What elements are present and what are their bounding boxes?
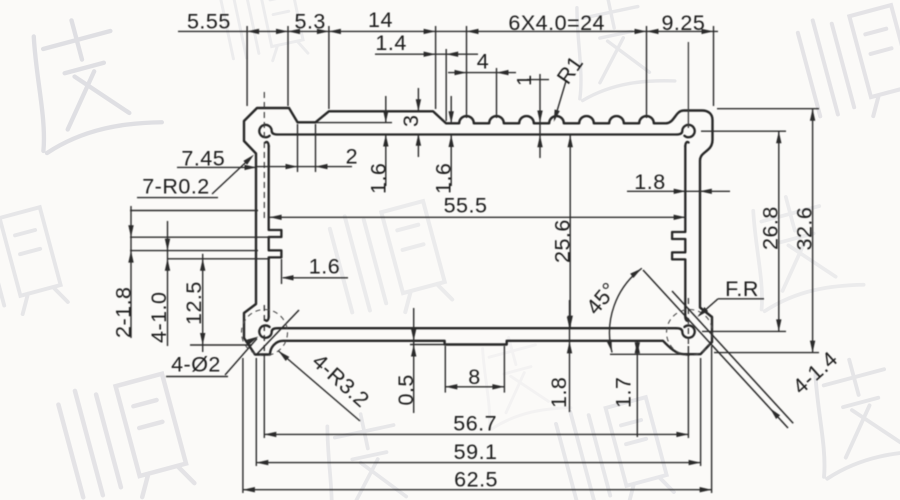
- svg-text:2: 2: [346, 145, 358, 169]
- svg-text:7-R0.2: 7-R0.2: [142, 175, 210, 199]
- slot lines 4-1.4 at 45 deg: [643, 270, 788, 428]
- dimension 1.6 (dip wall): [316, 122, 392, 124]
- extension lines left block: [130, 210, 258, 212]
- dimension 2 (dip width): [297, 124, 299, 172]
- extension lines top: [246, 26, 248, 106]
- top dimension chain line: [178, 30, 718, 32]
- svg-text:9.25: 9.25: [661, 11, 705, 35]
- svg-text:55.5: 55.5: [444, 194, 488, 218]
- svg-text:56.7: 56.7: [453, 412, 497, 436]
- bottom dimension 56.7: [263, 305, 265, 360]
- callout 4-R3.2: [279, 351, 361, 421]
- svg-text:F.R: F.R: [725, 277, 759, 301]
- profile outer outline: [244, 108, 713, 355]
- svg-text:0.5: 0.5: [394, 374, 418, 405]
- svg-text:1.6: 1.6: [309, 255, 340, 279]
- dimension 25.6: [569, 135, 571, 327]
- svg-text:4-1.0: 4-1.0: [147, 291, 171, 343]
- svg-text:5.55: 5.55: [187, 10, 231, 34]
- dimension 4 (bump pitch): [448, 72, 516, 74]
- svg-text:4-Ø2: 4-Ø2: [171, 353, 221, 377]
- svg-text:14: 14: [368, 8, 393, 32]
- svg-text:6X4.0=24: 6X4.0=24: [508, 11, 605, 35]
- dimension 26.8: [701, 130, 786, 132]
- arrows top chain: [247, 29, 259, 34]
- svg-text:1.4: 1.4: [375, 31, 406, 55]
- phantom circle R3.2 bottom-right: [667, 310, 713, 356]
- svg-text:4: 4: [477, 50, 489, 74]
- dimension 1.8 (bottom wall): [569, 300, 571, 412]
- svg-text:32.6: 32.6: [793, 207, 817, 251]
- screw boss bottom-left: [259, 317, 277, 338]
- leader R1: [555, 81, 567, 120]
- dimension 55.5: [270, 216, 686, 218]
- dimension 0.5: [410, 344, 446, 346]
- svg-text:3: 3: [399, 115, 423, 127]
- svg-text:1.8: 1.8: [634, 170, 665, 194]
- callout 7-R0.2: [137, 197, 218, 199]
- dimension 1 (bump height): [539, 74, 541, 158]
- svg-text:1.7: 1.7: [612, 377, 636, 408]
- screw boss bottom-right: [676, 317, 694, 338]
- dimension 8 (bottom notch): [444, 346, 446, 393]
- svg-text:25.6: 25.6: [551, 219, 575, 263]
- right wall inner surface with PCB ribs: [672, 146, 685, 316]
- callout F.R: [718, 298, 764, 300]
- dimension 1.8 (right wall): [627, 190, 730, 192]
- dimension 32.6: [717, 108, 819, 110]
- svg-text:1.8: 1.8: [547, 377, 571, 408]
- bottom-left boss slot line at 45 deg: [257, 310, 299, 354]
- svg-text:62.5: 62.5: [454, 468, 498, 492]
- svg-text:2-1.8: 2-1.8: [112, 286, 136, 338]
- svg-text:1: 1: [514, 74, 536, 86]
- dimension 7.45: [177, 166, 257, 168]
- bottom dimension 62.5: [242, 358, 244, 493]
- svg-text:1.6: 1.6: [432, 163, 456, 194]
- dimension 1.4: [375, 53, 478, 55]
- boss centerline top-left: [263, 92, 265, 218]
- interior bottom wall line: [278, 327, 676, 329]
- dimension 45 deg arc: [610, 269, 642, 352]
- screw boss top-left: [259, 125, 277, 146]
- bottom dimension 59.1: [255, 358, 257, 466]
- phantom circle R3.2 bottom-left: [242, 310, 288, 356]
- dimension 12.5: [202, 254, 204, 352]
- svg-text:5.3: 5.3: [295, 10, 326, 34]
- boss centerline bottom-right: [687, 298, 689, 346]
- dimension 2-1.8: [130, 206, 132, 338]
- screw boss top-right: [676, 125, 694, 146]
- callout 4-dia2: [166, 376, 228, 378]
- watermark characters: [13, 5, 162, 154]
- dimension 1.6 (rib length): [281, 259, 283, 284]
- svg-text:12.5: 12.5: [182, 281, 206, 325]
- svg-text:8: 8: [468, 365, 480, 389]
- interior top wall line: [278, 133, 676, 135]
- svg-text:59.1: 59.1: [454, 440, 498, 464]
- dimension 1.6 (rib area wall): [450, 96, 452, 123]
- svg-text:26.8: 26.8: [759, 206, 783, 250]
- dimension 3 (top wall): [417, 88, 419, 111]
- boss centerline top-right: [687, 42, 689, 128]
- dimension 1.7 (corner pad step): [636, 341, 638, 437]
- svg-text:1.6: 1.6: [366, 163, 390, 194]
- left wall inner surface with PCB ribs: [269, 146, 282, 316]
- svg-text:7.45: 7.45: [181, 147, 225, 171]
- dimension 4-1.0: [167, 221, 169, 346]
